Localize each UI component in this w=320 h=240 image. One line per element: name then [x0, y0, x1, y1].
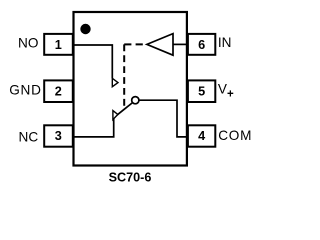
svg-text:5: 5 [198, 84, 205, 98]
svg-text:NC: NC [19, 130, 39, 145]
svg-text:COM: COM [218, 128, 252, 143]
svg-text:6: 6 [198, 38, 205, 52]
svg-text:NO: NO [18, 36, 38, 51]
svg-text:2: 2 [55, 84, 62, 98]
svg-text:1: 1 [55, 38, 62, 52]
svg-text:4: 4 [198, 129, 205, 143]
svg-text:V+: V+ [218, 82, 234, 101]
svg-text:IN: IN [218, 35, 232, 50]
svg-text:3: 3 [55, 129, 62, 143]
svg-text:SC70-6: SC70-6 [109, 170, 152, 184]
svg-text:GND: GND [9, 83, 41, 98]
